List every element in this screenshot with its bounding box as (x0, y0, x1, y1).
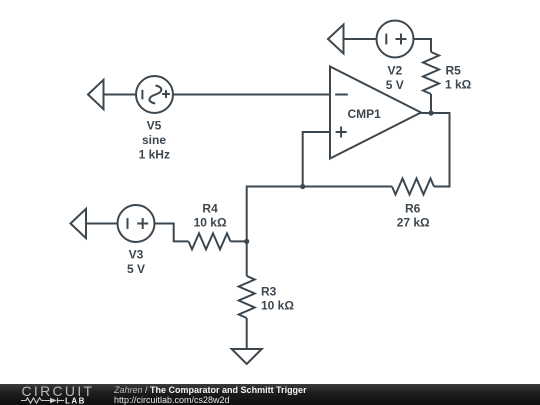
resistor R3 (239, 276, 255, 318)
svg-text:R5: R5 (446, 63, 462, 77)
wire R4 to node (231, 240, 247, 242)
svg-text:CMP1: CMP1 (348, 107, 382, 121)
wire R3 to ground (246, 318, 248, 349)
wire R5 to output node (430, 94, 432, 113)
wire V2 to R5 (414, 39, 432, 52)
svg-text:10 kΩ: 10 kΩ (194, 216, 227, 230)
junction: feedback node at plus branch (300, 184, 305, 189)
op-amp CMP1 (330, 67, 421, 159)
label V5 sine 1 kHz (139, 119, 170, 162)
label V3 5 V (127, 248, 145, 277)
junction: op-amp output node (428, 110, 433, 115)
wire flag to V5 (104, 94, 137, 96)
ground (232, 349, 262, 364)
svg-text:1 kΩ: 1 kΩ (445, 78, 472, 92)
svg-text:sine: sine (142, 133, 166, 147)
wire V5 to op-amp minus input (173, 94, 330, 96)
resistor R6 (392, 179, 434, 195)
label V2 5 V (386, 63, 404, 91)
voltage source V3 (118, 205, 155, 242)
wire flag to V3 (86, 223, 118, 225)
wire plus input branch (303, 132, 330, 187)
junction: R4/R3/feedback node (244, 239, 249, 244)
resistor R5 (423, 52, 439, 94)
footer bar (0, 384, 540, 405)
wire flag to V2 (344, 38, 377, 40)
label R5 1 kΩ (445, 63, 472, 91)
wire node to R3 (246, 241, 248, 276)
svg-text:V3: V3 (129, 248, 144, 262)
svg-text:R6: R6 (405, 201, 421, 215)
net flag (V2 output) (328, 25, 344, 54)
svg-text:5 V: 5 V (127, 262, 145, 276)
svg-text:V2: V2 (387, 63, 402, 77)
svg-text:R4: R4 (202, 201, 218, 215)
svg-text:R3: R3 (261, 285, 277, 299)
net flag (V5) (88, 80, 104, 109)
footer title (114, 385, 307, 395)
label R6 27 kΩ (397, 201, 430, 229)
label R3 10 kΩ (261, 285, 294, 313)
CircuitLab logo (22, 383, 95, 399)
svg-text:LAB: LAB (65, 397, 86, 404)
voltage source V5 (sine) (136, 76, 173, 113)
net flag (V3) (71, 209, 87, 238)
wire V3 to R4 (155, 224, 189, 242)
svg-text:10 kΩ: 10 kΩ (261, 299, 294, 313)
svg-text:1 kHz: 1 kHz (139, 147, 170, 161)
svg-text:5 V: 5 V (386, 78, 404, 92)
wire output node to R6 right (421, 113, 450, 187)
resistor R4 (189, 233, 231, 249)
svg-text:V5: V5 (147, 119, 162, 133)
footer url (114, 395, 230, 405)
voltage source V2 (377, 21, 414, 58)
svg-text:27 kΩ: 27 kΩ (397, 216, 430, 230)
label R4 10 kΩ (194, 201, 227, 229)
feedback wire R6 to corner (247, 187, 392, 242)
